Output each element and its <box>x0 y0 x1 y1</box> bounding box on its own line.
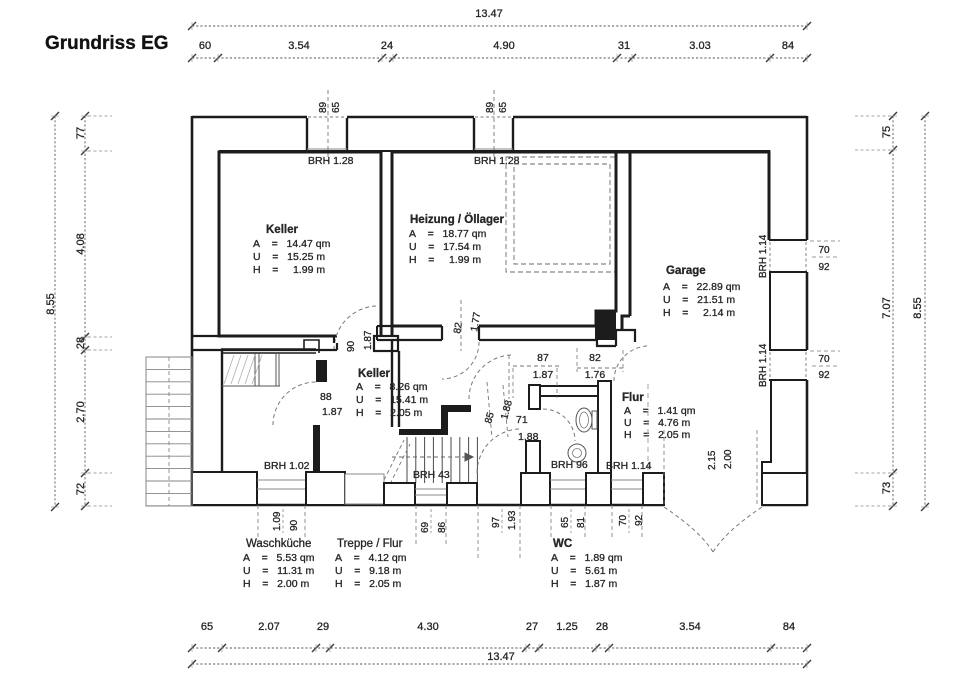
svg-text:H = 1.99 m: H = 1.99 m <box>253 264 325 276</box>
svg-text:BRH 96: BRH 96 <box>551 459 588 471</box>
svg-text:H = 2.05 m: H = 2.05 m <box>335 578 401 590</box>
svg-text:A = 22.89 qm: A = 22.89 qm <box>663 281 741 293</box>
inner face top wall <box>219 150 770 152</box>
svg-text:81: 81 <box>576 516 587 528</box>
room Heizung/Oellager outline <box>392 152 616 326</box>
WC left jamb block <box>529 385 540 409</box>
garage door swing arcs <box>664 507 713 552</box>
svg-text:BRH 43: BRH 43 <box>413 469 450 481</box>
outer wall right <box>806 116 809 240</box>
svg-text:A = 1.89 qm: A = 1.89 qm <box>551 552 623 564</box>
door Waschkueche 88 swing <box>273 382 316 425</box>
Heizung bottom wall lower line <box>392 339 442 341</box>
svg-text:BRH 1.28: BRH 1.28 <box>308 155 354 167</box>
svg-text:1.87: 1.87 <box>363 330 374 350</box>
svg-text:U = 15.41 m: U = 15.41 m <box>356 394 428 406</box>
wall Heizung/Garage partition <box>615 152 618 311</box>
svg-text:69: 69 <box>420 521 431 533</box>
svg-text:65: 65 <box>201 621 213 633</box>
left overall dimension 8.55 <box>54 116 56 507</box>
bottom wall stair pier left <box>384 483 415 505</box>
svg-text:8.55: 8.55 <box>912 297 924 318</box>
sink <box>568 444 586 462</box>
svg-text:60: 60 <box>199 40 211 52</box>
wall Waschkueche/Treppe lower <box>313 425 320 473</box>
Heizung step box <box>595 311 616 340</box>
svg-text:28: 28 <box>596 621 608 633</box>
svg-text:70: 70 <box>618 514 629 526</box>
svg-text:1.76: 1.76 <box>585 369 606 381</box>
svg-text:88: 88 <box>320 391 332 403</box>
svg-text:73: 73 <box>881 482 893 494</box>
svg-text:Garage: Garage <box>666 265 706 277</box>
bottom overall dimension 13.47 <box>192 663 807 665</box>
svg-text:84: 84 <box>782 40 794 52</box>
bottom wall pier <box>306 472 345 505</box>
svg-text:U = 5.61 m: U = 5.61 m <box>551 565 617 577</box>
Flur top wall jog <box>597 330 635 346</box>
window WC BRH 96 65/81 <box>550 479 586 481</box>
svg-text:1.09: 1.09 <box>272 511 283 531</box>
svg-text:72: 72 <box>75 483 87 495</box>
room Garage outline <box>616 152 769 240</box>
bottom wall pier WC right <box>586 473 611 505</box>
svg-text:H = 1.99 m: H = 1.99 m <box>409 254 481 266</box>
svg-text:90: 90 <box>289 519 300 531</box>
svg-text:71: 71 <box>516 414 528 426</box>
garage left wall step <box>622 316 630 331</box>
svg-text:92: 92 <box>634 514 645 526</box>
svg-text:90: 90 <box>346 340 357 352</box>
svg-text:H = 2.05 m: H = 2.05 m <box>624 429 690 441</box>
window top-left BRH 1.28 <box>307 148 347 150</box>
wall small-Keller corridor <box>391 340 393 427</box>
room Keller outline <box>219 152 381 336</box>
door 87 swing <box>469 355 513 399</box>
wall Waschkueche/Treppe upper <box>316 360 327 382</box>
wall Keller/Heizung partition <box>391 152 394 340</box>
svg-text:U = 17.54 m: U = 17.54 m <box>409 241 481 253</box>
bottom wall pier WC left <box>521 473 550 505</box>
WC left wall lower <box>526 441 540 474</box>
door Heizung 82 swing <box>442 342 479 379</box>
door 87 dimension <box>513 365 560 367</box>
svg-text:1.88: 1.88 <box>518 431 539 443</box>
exterior stair <box>146 357 192 506</box>
right overall dimension 8.55 <box>924 116 926 507</box>
svg-text:A = 8.26 qm: A = 8.26 qm <box>356 381 428 393</box>
bottom wall pier left corner <box>192 472 257 505</box>
svg-text:BRH 1.14: BRH 1.14 <box>758 343 769 387</box>
svg-text:13.47: 13.47 <box>487 651 515 663</box>
window right wall lower 70/92 BRH 1.14 <box>769 349 807 351</box>
svg-text:3.54: 3.54 <box>679 621 700 633</box>
Waschkueche closet lines <box>222 385 280 387</box>
svg-text:65: 65 <box>331 101 342 113</box>
svg-text:H = 2.00 m: H = 2.00 m <box>243 578 309 590</box>
svg-text:65: 65 <box>498 101 509 113</box>
extension dashes right chain <box>855 115 890 117</box>
left dimension chain 77/4.08/28/2.70/72 <box>84 116 86 507</box>
svg-text:75: 75 <box>881 126 893 138</box>
entrance door 97/1.93 labels <box>477 505 479 560</box>
svg-text:U = 15.25 m: U = 15.25 m <box>253 251 325 263</box>
svg-text:U = 11.31 m: U = 11.31 m <box>243 565 315 577</box>
stair cut diagonals <box>384 440 404 480</box>
svg-text:Treppe / Flur: Treppe / Flur <box>337 538 403 550</box>
entrance door 97 swing <box>477 429 521 473</box>
svg-text:27: 27 <box>526 621 538 633</box>
window Waschkueche BRH 1.02 <box>257 479 306 481</box>
Waschkueche closet hatch <box>224 355 234 384</box>
svg-text:H = 2.14 m: H = 2.14 m <box>663 307 735 319</box>
Keller bottom wall band <box>192 335 334 337</box>
svg-text:8.55: 8.55 <box>45 293 57 314</box>
bottom wall right corner <box>762 473 807 505</box>
stair treads <box>406 437 408 483</box>
partition foot pier <box>374 336 398 351</box>
Flur open side dashed <box>647 384 649 470</box>
svg-text:89: 89 <box>318 101 329 113</box>
svg-text:84: 84 <box>783 621 795 633</box>
svg-text:1.25: 1.25 <box>556 621 577 633</box>
room Waschkueche left wall <box>221 349 223 473</box>
garage door 2.15/2.00 <box>663 430 665 505</box>
svg-text:70: 70 <box>818 354 830 365</box>
svg-text:Keller: Keller <box>266 224 298 236</box>
corridor clear width 85/1.88 labels <box>487 382 492 438</box>
svg-text:82: 82 <box>589 352 601 364</box>
room Waschkueche top wall <box>221 348 316 350</box>
svg-text:A = 18.77 qm: A = 18.77 qm <box>409 228 487 240</box>
svg-text:2.00: 2.00 <box>723 449 734 469</box>
svg-text:2.07: 2.07 <box>258 621 279 633</box>
svg-text:28: 28 <box>75 337 87 349</box>
door dim extension dashed lines <box>512 368 514 398</box>
svg-text:87: 87 <box>537 352 549 364</box>
svg-text:U = 9.18 m: U = 9.18 m <box>335 565 401 577</box>
svg-text:31: 31 <box>618 40 630 52</box>
svg-text:1.87: 1.87 <box>322 406 343 418</box>
window Flur BRH 1.14 70/92 <box>611 479 643 481</box>
svg-text:24: 24 <box>381 40 393 52</box>
svg-text:77: 77 <box>75 127 87 139</box>
right dimension chain 75/7.07/73 <box>892 116 894 507</box>
stair walk line with arrow <box>392 456 466 458</box>
outer wall left <box>191 116 194 506</box>
svg-text:1.93: 1.93 <box>507 510 518 530</box>
oil tank dashed outline <box>506 157 617 272</box>
window stairs BRH 43 69/86 <box>415 488 447 490</box>
corridor south step bars <box>399 429 442 435</box>
svg-text:U = 21.51 m: U = 21.51 m <box>663 294 735 306</box>
svg-text:BRH 1.14: BRH 1.14 <box>758 234 769 278</box>
top overall dimension 13.47 <box>192 25 807 27</box>
svg-text:92: 92 <box>818 370 830 381</box>
svg-text:A = 1.41 qm: A = 1.41 qm <box>624 405 696 417</box>
bottom wall stair pier right <box>447 483 477 505</box>
bottom wall outer line <box>192 504 664 507</box>
svg-text:BRH 1.02: BRH 1.02 <box>264 460 310 472</box>
svg-text:U = 4.76 m: U = 4.76 m <box>624 417 690 429</box>
svg-text:BRH 1.14: BRH 1.14 <box>606 460 652 472</box>
svg-text:H = 1.87 m: H = 1.87 m <box>551 578 617 590</box>
svg-text:4.90: 4.90 <box>493 40 514 52</box>
top dimension chain 60/3.54/24/4.90/31/3.03/84 <box>192 57 807 59</box>
svg-text:Keller: Keller <box>358 368 390 380</box>
svg-text:2.15: 2.15 <box>707 450 718 470</box>
bottom dimension chain 65/2.07/29/4.30/27/1.25/28/3.54/84 <box>192 647 807 649</box>
garage door jamb left <box>643 473 664 505</box>
svg-text:Flur: Flur <box>622 392 644 404</box>
svg-text:4.08: 4.08 <box>75 233 87 254</box>
room WC right wall <box>598 381 611 474</box>
door WC 71 swing <box>543 409 575 441</box>
window right wall upper 70/92 BRH 1.14 <box>769 239 807 241</box>
garage right inner wall <box>769 272 771 350</box>
svg-text:3.03: 3.03 <box>689 40 710 52</box>
svg-text:Waschküche: Waschküche <box>246 538 311 550</box>
bottom wall thin niche <box>345 474 384 504</box>
svg-text:7.07: 7.07 <box>881 297 893 318</box>
svg-text:29: 29 <box>317 621 329 633</box>
svg-text:97: 97 <box>491 516 502 528</box>
svg-text:WC: WC <box>553 538 572 550</box>
svg-text:2.70: 2.70 <box>75 401 87 422</box>
svg-text:70: 70 <box>818 245 830 256</box>
toilet <box>576 408 592 432</box>
svg-text:89: 89 <box>485 101 496 113</box>
svg-text:H = 2.05 m: H = 2.05 m <box>356 407 422 419</box>
svg-text:BRH 1.28: BRH 1.28 <box>474 155 520 167</box>
door 82 Flur swing <box>614 346 649 381</box>
divider dashes small dims <box>282 509 284 533</box>
svg-text:3.54: 3.54 <box>288 40 309 52</box>
room WC top wall <box>540 386 598 396</box>
svg-text:A = 5.53 qm: A = 5.53 qm <box>243 552 315 564</box>
svg-text:Heizung / Öllager: Heizung / Öllager <box>410 213 504 226</box>
svg-text:A = 4.12 qm: A = 4.12 qm <box>335 552 407 564</box>
svg-text:4.30: 4.30 <box>417 621 438 633</box>
svg-text:13.47: 13.47 <box>475 8 503 20</box>
svg-text:A = 14.47 qm: A = 14.47 qm <box>253 238 331 250</box>
window top-middle BRH 1.28 <box>474 148 513 150</box>
door Keller 90 swing <box>334 306 378 350</box>
svg-text:86: 86 <box>437 521 448 533</box>
extension dashes left chain <box>88 115 112 117</box>
outer wall top <box>192 116 307 119</box>
svg-text:Grundriss EG: Grundriss EG <box>45 33 169 54</box>
svg-text:92: 92 <box>818 262 830 273</box>
svg-text:1.87: 1.87 <box>533 369 554 381</box>
svg-text:65: 65 <box>560 516 571 528</box>
